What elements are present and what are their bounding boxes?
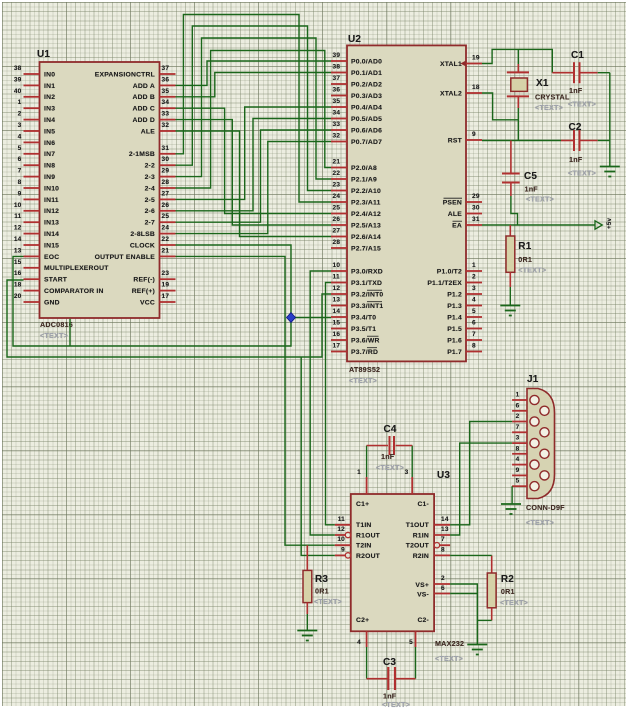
svg-text:P2.7/A15: P2.7/A15: [351, 245, 381, 252]
svg-text:14: 14: [14, 236, 22, 243]
svg-text:R2OUT: R2OUT: [356, 553, 381, 560]
svg-text:P1.7: P1.7: [447, 349, 462, 356]
svg-text:17: 17: [162, 293, 170, 300]
svg-text:10: 10: [333, 262, 341, 269]
svg-text:22: 22: [162, 236, 170, 243]
svg-text:38: 38: [333, 64, 341, 71]
svg-text:28: 28: [162, 179, 170, 186]
svg-text:0R1: 0R1: [501, 587, 515, 596]
svg-text:32: 32: [333, 133, 341, 140]
svg-text:2-7: 2-7: [145, 220, 155, 227]
svg-text:14: 14: [333, 308, 341, 315]
svg-text:P1.3: P1.3: [447, 303, 462, 310]
svg-text:29: 29: [472, 193, 480, 200]
svg-text:P2.3/A11: P2.3/A11: [351, 199, 381, 206]
svg-text:8: 8: [472, 343, 476, 350]
svg-text:X1: X1: [536, 78, 549, 89]
svg-text:IN9: IN9: [44, 174, 55, 181]
svg-text:6: 6: [441, 585, 445, 592]
svg-text:VS+: VS+: [415, 582, 429, 589]
svg-text:2: 2: [18, 111, 22, 118]
svg-text:9: 9: [472, 131, 476, 138]
svg-text:25: 25: [162, 213, 170, 220]
svg-text:38: 38: [14, 65, 22, 72]
svg-text:27: 27: [333, 228, 341, 235]
svg-text:VS-: VS-: [417, 592, 429, 599]
svg-text:T2IN: T2IN: [356, 543, 372, 550]
svg-text:OUTPUT ENABLE: OUTPUT ENABLE: [95, 254, 156, 261]
svg-text:26: 26: [333, 216, 341, 223]
svg-text:C1: C1: [571, 50, 584, 61]
svg-text:IN13: IN13: [44, 220, 59, 227]
svg-text:21: 21: [162, 247, 170, 254]
svg-text:IN8: IN8: [44, 163, 55, 170]
svg-text:P3.6/WR: P3.6/WR: [351, 337, 380, 344]
svg-text:P1.1/T2EX: P1.1/T2EX: [427, 280, 462, 287]
svg-text:37: 37: [162, 65, 170, 72]
svg-text:11: 11: [333, 274, 340, 281]
svg-text:<TEXT>: <TEXT>: [518, 266, 546, 275]
svg-text:P2.6/A14: P2.6/A14: [351, 234, 381, 241]
svg-text:10: 10: [337, 536, 345, 543]
svg-text:1: 1: [472, 262, 476, 269]
svg-text:8: 8: [516, 445, 520, 452]
svg-text:26: 26: [162, 202, 170, 209]
svg-text:31: 31: [162, 145, 170, 152]
svg-text:2: 2: [472, 274, 476, 281]
svg-text:+5v: +5v: [606, 218, 613, 229]
svg-text:20: 20: [14, 293, 22, 300]
svg-text:<TEXT>: <TEXT>: [40, 331, 68, 340]
svg-text:13: 13: [441, 526, 449, 533]
svg-text:<TEXT>: <TEXT>: [500, 598, 528, 607]
svg-text:27: 27: [162, 190, 170, 197]
svg-text:EOC: EOC: [44, 254, 59, 261]
svg-text:P3.1/TXD: P3.1/TXD: [351, 280, 382, 287]
svg-text:PSEN: PSEN: [443, 199, 462, 206]
svg-text:28: 28: [333, 239, 341, 246]
svg-text:40: 40: [14, 88, 22, 95]
svg-text:8: 8: [18, 179, 22, 186]
svg-text:3: 3: [516, 435, 520, 442]
svg-text:ALE: ALE: [448, 211, 462, 218]
svg-text:1nF: 1nF: [381, 452, 395, 461]
svg-text:C1-: C1-: [417, 501, 429, 508]
svg-text:IN7: IN7: [44, 151, 55, 158]
svg-text:14: 14: [441, 516, 449, 523]
svg-text:P0.3/AD3: P0.3/AD3: [351, 93, 382, 100]
svg-text:<TEXT>: <TEXT>: [568, 169, 596, 178]
svg-text:P0.2/AD2: P0.2/AD2: [351, 81, 382, 88]
svg-text:IN1: IN1: [44, 83, 55, 90]
svg-text:IN14: IN14: [44, 231, 59, 238]
svg-text:36: 36: [162, 76, 170, 83]
svg-text:33: 33: [162, 111, 170, 118]
svg-text:P1.6: P1.6: [447, 337, 462, 344]
svg-text:9: 9: [18, 190, 22, 197]
svg-text:U2: U2: [348, 34, 361, 45]
svg-text:33: 33: [333, 121, 341, 128]
svg-text:P1.4: P1.4: [447, 314, 462, 321]
svg-text:2-1MSB: 2-1MSB: [129, 151, 155, 158]
svg-text:R2: R2: [501, 574, 514, 585]
svg-text:T1IN: T1IN: [356, 522, 372, 529]
svg-text:12: 12: [333, 285, 341, 292]
svg-text:C2+: C2+: [356, 617, 369, 624]
svg-text:P3.2/INT0: P3.2/INT0: [351, 291, 383, 298]
svg-text:<TEXT>: <TEXT>: [435, 654, 463, 663]
svg-text:5: 5: [409, 639, 413, 646]
svg-text:13: 13: [333, 297, 341, 304]
svg-text:12: 12: [14, 225, 22, 232]
svg-text:<TEXT>: <TEXT>: [535, 103, 563, 112]
svg-text:ADD A: ADD A: [133, 83, 155, 90]
svg-text:30: 30: [472, 205, 480, 212]
svg-text:<TEXT>: <TEXT>: [314, 597, 342, 606]
svg-text:39: 39: [333, 52, 341, 59]
svg-text:P3.7/RD: P3.7/RD: [351, 349, 378, 356]
svg-text:CLOCK: CLOCK: [130, 242, 155, 249]
svg-text:P2.5/A13: P2.5/A13: [351, 222, 381, 229]
svg-text:CONN-D9F: CONN-D9F: [526, 503, 565, 512]
svg-text:<TEXT>: <TEXT>: [526, 518, 554, 527]
svg-text:<TEXT>: <TEXT>: [376, 463, 404, 472]
svg-text:32: 32: [162, 122, 170, 129]
svg-text:REF(+): REF(+): [132, 288, 155, 295]
svg-text:2-6: 2-6: [145, 208, 155, 215]
svg-text:2-3: 2-3: [145, 174, 155, 181]
svg-text:18: 18: [14, 282, 22, 289]
svg-text:IN10: IN10: [44, 185, 59, 192]
svg-text:P2.2/A10: P2.2/A10: [351, 188, 381, 195]
svg-text:21: 21: [333, 159, 341, 166]
svg-text:P0.7/AD7: P0.7/AD7: [351, 139, 382, 146]
svg-text:ADD B: ADD B: [132, 94, 155, 101]
svg-text:1nF: 1nF: [569, 86, 583, 95]
svg-text:P3.0/RXD: P3.0/RXD: [351, 268, 383, 275]
svg-text:<TEXT>: <TEXT>: [349, 376, 377, 385]
svg-text:R3: R3: [315, 574, 328, 585]
svg-text:R1: R1: [518, 241, 531, 252]
svg-text:COMPARATOR IN: COMPARATOR IN: [44, 288, 104, 295]
svg-text:RST: RST: [448, 137, 463, 144]
svg-text:18: 18: [472, 84, 480, 91]
svg-text:START: START: [44, 277, 68, 284]
svg-text:T2OUT: T2OUT: [406, 543, 430, 550]
svg-text:35: 35: [162, 88, 170, 95]
svg-text:P2.1/A9: P2.1/A9: [351, 176, 377, 183]
svg-text:19: 19: [472, 55, 480, 62]
svg-text:R1IN: R1IN: [413, 532, 429, 539]
svg-text:7: 7: [18, 168, 22, 175]
svg-text:U3: U3: [437, 470, 450, 481]
svg-text:MULTIPLEXEROUT: MULTIPLEXEROUT: [44, 265, 109, 272]
svg-text:25: 25: [333, 205, 341, 212]
svg-text:23: 23: [333, 182, 341, 189]
svg-text:11: 11: [14, 213, 21, 220]
svg-text:9: 9: [341, 546, 345, 553]
svg-text:IN2: IN2: [44, 94, 55, 101]
svg-text:<TEXT>: <TEXT>: [568, 100, 596, 109]
svg-text:GND: GND: [44, 299, 60, 306]
svg-text:P0.0/AD0: P0.0/AD0: [351, 58, 382, 65]
svg-text:R1OUT: R1OUT: [356, 532, 381, 539]
svg-text:6: 6: [472, 320, 476, 327]
svg-text:24: 24: [333, 193, 341, 200]
svg-text:IN6: IN6: [44, 140, 55, 147]
svg-text:4: 4: [357, 639, 361, 646]
svg-text:P1.2: P1.2: [447, 291, 462, 298]
svg-text:P3.3/INT1: P3.3/INT1: [351, 303, 383, 310]
svg-text:24: 24: [162, 225, 170, 232]
svg-text:CRYSTAL: CRYSTAL: [535, 93, 570, 102]
svg-text:3: 3: [18, 122, 22, 129]
svg-text:IN3: IN3: [44, 106, 55, 113]
svg-text:0R1: 0R1: [518, 255, 532, 264]
svg-text:EXPANSIONCTRL: EXPANSIONCTRL: [95, 71, 155, 78]
svg-text:7: 7: [516, 424, 520, 431]
svg-text:10: 10: [14, 202, 22, 209]
svg-text:3: 3: [472, 285, 476, 292]
svg-text:5: 5: [516, 478, 520, 485]
svg-text:P0.6/AD6: P0.6/AD6: [351, 127, 382, 134]
svg-text:IN11: IN11: [44, 197, 59, 204]
svg-text:2-8LSB: 2-8LSB: [130, 231, 155, 238]
svg-text:2-5: 2-5: [145, 197, 155, 204]
svg-text:19: 19: [162, 282, 170, 289]
svg-text:IN4: IN4: [44, 117, 55, 124]
svg-text:4: 4: [18, 133, 22, 140]
svg-text:ALE: ALE: [141, 128, 155, 135]
svg-text:9: 9: [516, 467, 520, 474]
svg-text:2-4: 2-4: [145, 185, 155, 192]
svg-text:P0.5/AD5: P0.5/AD5: [351, 116, 382, 123]
svg-text:23: 23: [162, 270, 170, 277]
svg-text:34: 34: [333, 110, 341, 117]
svg-text:MAX232: MAX232: [435, 639, 464, 648]
svg-text:J1: J1: [527, 374, 539, 385]
svg-text:31: 31: [472, 216, 480, 223]
svg-text:P0.4/AD4: P0.4/AD4: [351, 104, 382, 111]
svg-text:15: 15: [14, 259, 22, 266]
svg-text:1nF: 1nF: [525, 185, 539, 194]
svg-text:C4: C4: [384, 424, 397, 435]
svg-text:C2: C2: [569, 122, 582, 133]
svg-text:XTAL2: XTAL2: [440, 90, 462, 97]
svg-text:4: 4: [472, 297, 476, 304]
svg-text:P1.0/T2: P1.0/T2: [437, 268, 462, 275]
svg-text:35: 35: [333, 98, 341, 105]
svg-text:P2.4/A12: P2.4/A12: [351, 211, 381, 218]
svg-text:P3.5/T1: P3.5/T1: [351, 326, 376, 333]
svg-text:11: 11: [338, 516, 345, 523]
svg-text:P1.5: P1.5: [447, 326, 462, 333]
svg-text:C2-: C2-: [417, 617, 429, 624]
svg-text:7: 7: [472, 331, 476, 338]
svg-text:<TEXT>: <TEXT>: [382, 700, 410, 708]
svg-text:5: 5: [18, 145, 22, 152]
svg-text:ADC0816: ADC0816: [40, 320, 73, 329]
svg-text:36: 36: [333, 87, 341, 94]
svg-text:13: 13: [14, 247, 22, 254]
svg-text:R2IN: R2IN: [413, 553, 429, 560]
svg-text:34: 34: [162, 99, 170, 106]
svg-text:6: 6: [18, 156, 22, 163]
svg-text:C5: C5: [524, 171, 537, 182]
svg-text:AT89S52: AT89S52: [349, 365, 380, 374]
svg-text:IN12: IN12: [44, 208, 59, 215]
svg-text:P2.0/A8: P2.0/A8: [351, 165, 377, 172]
svg-text:U1: U1: [37, 49, 50, 60]
svg-text:29: 29: [162, 168, 170, 175]
svg-text:1: 1: [18, 99, 22, 106]
svg-text:C3: C3: [383, 657, 396, 668]
svg-text:22: 22: [333, 170, 341, 177]
svg-text:2-2: 2-2: [145, 163, 155, 170]
svg-text:8: 8: [441, 546, 445, 553]
svg-text:1: 1: [357, 469, 361, 476]
svg-text:IN5: IN5: [44, 128, 55, 135]
svg-text:IN15: IN15: [44, 242, 59, 249]
svg-text:XTAL1: XTAL1: [440, 61, 462, 68]
svg-text:EA: EA: [452, 222, 462, 229]
svg-text:12: 12: [337, 526, 345, 533]
svg-text:30: 30: [162, 156, 170, 163]
svg-text:0R1: 0R1: [315, 587, 329, 596]
svg-text:17: 17: [333, 343, 341, 350]
svg-text:IN0: IN0: [44, 71, 55, 78]
svg-text:3: 3: [405, 469, 409, 476]
svg-text:ADD C: ADD C: [132, 106, 155, 113]
svg-text:7: 7: [441, 536, 445, 543]
svg-text:VCC: VCC: [140, 299, 155, 306]
svg-text:37: 37: [333, 75, 341, 82]
svg-text:16: 16: [333, 331, 341, 338]
svg-text:C1+: C1+: [356, 501, 369, 508]
svg-text:REF(-): REF(-): [133, 277, 155, 284]
svg-text:1nF: 1nF: [569, 155, 583, 164]
svg-text:4: 4: [516, 456, 520, 463]
svg-text:39: 39: [14, 76, 22, 83]
svg-text:2: 2: [516, 413, 520, 420]
svg-text:ADD D: ADD D: [132, 117, 155, 124]
svg-text:15: 15: [333, 320, 341, 327]
svg-text:P0.1/AD1: P0.1/AD1: [351, 70, 382, 77]
svg-text:5: 5: [472, 308, 476, 315]
svg-text:<TEXT>: <TEXT>: [526, 195, 554, 204]
svg-text:P3.4/T0: P3.4/T0: [351, 314, 376, 321]
svg-text:T1OUT: T1OUT: [406, 522, 430, 529]
svg-text:2: 2: [441, 575, 445, 582]
svg-text:16: 16: [14, 270, 22, 277]
svg-text:6: 6: [516, 402, 520, 409]
svg-text:1: 1: [516, 392, 520, 399]
